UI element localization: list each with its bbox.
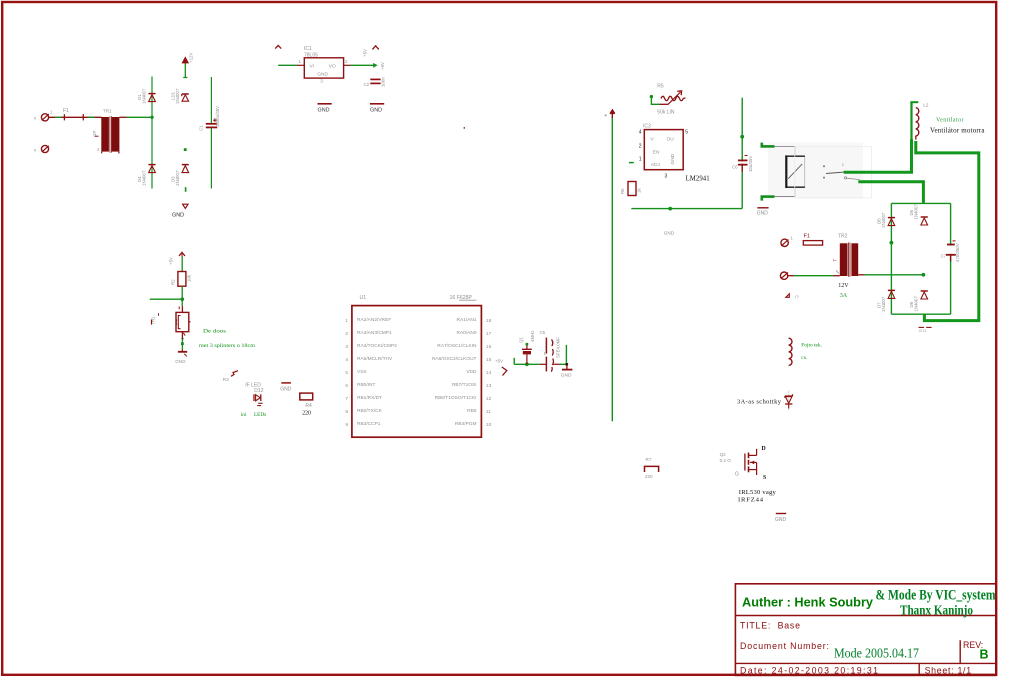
ground GND under IC1 — [318, 104, 332, 114]
+12V supply arrow — [182, 53, 193, 64]
svg-text:TITLE: Base: TITLE: Base — [740, 621, 800, 631]
svg-text:R?: R? — [646, 457, 652, 462]
svg-text:B: B — [980, 648, 989, 662]
transistor Q2 mosfet — [735, 446, 766, 481]
diode D1 — [137, 88, 156, 104]
svg-text:2: 2 — [345, 59, 348, 64]
+5V arrow at regulator output — [363, 46, 386, 70]
connector X1 — [34, 110, 53, 121]
net label gnd bridge — [919, 327, 932, 332]
node junction crystal — [525, 362, 529, 366]
wire regulator output — [344, 63, 378, 68]
label 16F628 — [450, 295, 477, 301]
svg-text:RA7/OSC1/CLKIN: RA7/OSC1/CLKIN — [437, 343, 477, 349]
svg-text:TR2: TR2 — [838, 233, 848, 239]
+5V supply arrow sensor — [169, 252, 186, 265]
svg-text:U1: U1 — [360, 295, 367, 301]
wire to R2 — [181, 257, 183, 272]
svg-text:RB6/T1OSO/T1CKI: RB6/T1OSO/T1CKI — [435, 395, 477, 401]
svg-text:met 3 splinters o 18cm: met 3 splinters o 18cm — [199, 343, 255, 349]
svg-text:1N4007: 1N4007 — [881, 212, 886, 228]
regulator IC1 78L05 — [304, 46, 344, 84]
inductor L1 choke — [789, 338, 792, 365]
resistor R6 — [620, 182, 642, 196]
svg-text:5: 5 — [345, 370, 348, 376]
wire X1 to fuse to TR1 — [49, 116, 102, 118]
svg-text:LEDs: LEDs — [254, 412, 266, 418]
wire relay no to bridge top — [858, 182, 923, 204]
left pin names — [357, 317, 397, 427]
svg-text:Q2: Q2 — [720, 452, 727, 457]
svg-text:VDD: VDD — [466, 369, 477, 375]
svg-text:RB7/T1OSI: RB7/T1OSI — [452, 382, 477, 388]
svg-text:IRL530 vagy: IRL530 vagy — [739, 489, 777, 496]
svg-text:RA6/OSC2/CLKOUT: RA6/OSC2/CLKOUT — [432, 356, 477, 362]
potentiometer R5 — [650, 83, 686, 115]
svg-text:+5V: +5V — [169, 257, 174, 265]
motor M1 coil — [916, 102, 929, 139]
wire osc left — [514, 358, 540, 365]
svg-text:0.2 O: 0.2 O — [720, 458, 732, 463]
svg-text:IC1: IC1 — [304, 46, 312, 52]
capacitor C6 — [732, 156, 753, 173]
svg-text:RA5/MCLR/THV: RA5/MCLR/THV — [357, 356, 393, 362]
thermistor TH1 — [151, 306, 191, 338]
relay contact lever — [795, 146, 872, 197]
svg-text:T: T — [833, 259, 838, 262]
svg-text:2: 2 — [345, 331, 348, 337]
svg-text:Date: 24-02-2003 20:19:31: Date: 24-02-2003 20:19:31 — [740, 666, 878, 676]
svg-text:D7: D7 — [876, 302, 881, 308]
svg-text:VO: VO — [329, 64, 336, 70]
wire R2 to node — [181, 286, 183, 306]
wire diode line 1 — [151, 77, 153, 189]
fuse F2 — [803, 234, 822, 245]
wire bridge frame — [890, 203, 951, 314]
diode D8 — [909, 291, 928, 312]
svg-text:ADJ: ADJ — [651, 162, 661, 168]
svg-text:1: 1 — [345, 318, 348, 324]
svg-text:3A-as schottky: 3A-as schottky — [737, 399, 782, 406]
ground GND led — [280, 383, 292, 392]
svg-text:SFE4.0MF: SFE4.0MF — [556, 337, 561, 358]
svg-text:.: . — [774, 241, 775, 246]
svg-text:cs.: cs. — [801, 355, 807, 361]
svg-text:1N4007: 1N4007 — [175, 88, 180, 104]
svg-text:RA1/AN1: RA1/AN1 — [457, 317, 477, 323]
svg-text:D8: D8 — [909, 301, 914, 307]
right pin names — [432, 317, 477, 427]
ground GND mosfet — [775, 514, 787, 523]
relay K1 coil — [774, 146, 805, 196]
svg-text:+5V: +5V — [495, 359, 503, 364]
svg-text:F1: F1 — [804, 234, 811, 240]
svg-text:VI: VI — [310, 64, 315, 70]
svg-text:3: 3 — [665, 174, 668, 180]
diode D5 — [876, 212, 895, 228]
svg-text:15: 15 — [486, 357, 492, 363]
svg-text:RA0/AN0: RA0/AN0 — [457, 330, 477, 336]
left pin numbers — [345, 318, 348, 428]
wire regulator input — [278, 64, 304, 66]
svg-text:LM2941: LM2941 — [686, 176, 710, 183]
svg-text:D5: D5 — [876, 218, 881, 224]
svg-text:GND: GND — [775, 517, 787, 523]
wire X4 to TR2 — [788, 275, 840, 277]
svg-text:GND: GND — [175, 359, 186, 364]
wire relay coil stub top — [761, 143, 775, 148]
wire +12V stub — [183, 64, 187, 78]
svg-text:14: 14 — [486, 370, 492, 376]
diode D6 — [909, 204, 928, 225]
svg-text:220: 220 — [645, 474, 653, 479]
svg-text:9: 9 — [345, 422, 348, 428]
svg-text:18: 18 — [486, 318, 492, 324]
svg-text:Sheet: 1/1: Sheet: 1/1 — [925, 666, 972, 676]
ground GND relay — [757, 208, 769, 217]
svg-text:+5V: +5V — [380, 62, 385, 70]
svg-text:OU: OU — [667, 136, 675, 142]
svg-text:D12: D12 — [254, 388, 263, 394]
svg-text:R2: R2 — [171, 279, 176, 285]
svg-text:12: 12 — [486, 396, 492, 402]
svg-text:7: 7 — [345, 396, 348, 402]
svg-text:D6: D6 — [909, 209, 914, 215]
svg-text:C7: C7 — [941, 254, 947, 259]
LED D12 — [254, 394, 263, 405]
svg-text:& Mode By VIC_system: & Mode By VIC_system — [876, 588, 996, 604]
svg-text:ini: ini — [241, 412, 247, 418]
svg-text:5: 5 — [685, 130, 688, 136]
svg-text:50k LIN: 50k LIN — [657, 109, 675, 115]
stray dot — [464, 127, 465, 128]
note irl530 — [738, 489, 777, 504]
resistor R4 — [300, 393, 313, 416]
svg-text:EN: EN — [653, 149, 660, 155]
svg-text:C5: C5 — [540, 330, 546, 335]
wire relay common to motor — [844, 139, 912, 172]
relay K1 background — [768, 143, 863, 199]
zener diode D2 — [171, 88, 189, 104]
svg-text:IRFZ44: IRFZ44 — [738, 497, 764, 504]
svg-text:RB0/INT: RB0/INT — [357, 382, 375, 388]
svg-text:GND: GND — [318, 107, 330, 113]
mark L net — [786, 294, 799, 300]
svg-text:Q1: Q1 — [518, 337, 523, 343]
diode D4 — [137, 165, 156, 186]
wire right riser — [740, 98, 744, 209]
note int led — [241, 412, 266, 418]
note choke green — [801, 343, 822, 361]
svg-text:Document Number:: Document Number: — [740, 641, 829, 651]
capacitor C2 — [364, 77, 386, 87]
svg-text:C1: C1 — [199, 125, 204, 131]
svg-text:G D: G D — [919, 328, 926, 333]
resonator ceramic — [540, 330, 561, 372]
svg-text:F1: F1 — [63, 108, 69, 114]
svg-text:78L05: 78L05 — [304, 52, 318, 58]
wire capacitor line — [210, 77, 212, 189]
resistor R2 — [171, 272, 192, 287]
+12V arrow tall rail — [605, 109, 615, 118]
svg-text:L2: L2 — [923, 102, 929, 107]
svg-text:RB5: RB5 — [467, 408, 477, 414]
capacitor C7 — [941, 241, 960, 262]
svg-text:1: 1 — [639, 156, 642, 162]
svg-text:1N4007: 1N4007 — [175, 170, 180, 186]
diode D9 schottky — [785, 391, 793, 411]
svg-text:4: 4 — [345, 357, 348, 363]
svg-text:.: . — [774, 274, 775, 279]
svg-text:1N4007: 1N4007 — [142, 88, 147, 104]
wire TR1 to bridge node — [119, 116, 152, 118]
svg-text:R4: R4 — [305, 403, 312, 409]
right pin numbers — [486, 318, 492, 428]
wire tall rail — [611, 118, 613, 422]
svg-text:2: 2 — [639, 143, 642, 149]
svg-text:1N4007: 1N4007 — [914, 296, 919, 312]
node junction sensor — [181, 297, 185, 301]
svg-text:Auther : Henk Soubry: Auther : Henk Soubry — [742, 596, 873, 610]
svg-text:3: 3 — [345, 344, 348, 350]
svg-text:GND: GND — [280, 386, 292, 392]
svg-text:R5: R5 — [657, 83, 664, 89]
connector X2 — [34, 145, 49, 152]
fuse F1 — [63, 108, 83, 120]
diode D7 — [876, 290, 895, 312]
svg-text:100n: 100n — [381, 77, 386, 87]
svg-text:10k: 10k — [187, 274, 192, 282]
title block frame — [735, 584, 996, 676]
+12V arrow at regulator input — [275, 45, 281, 48]
node junction D-line — [150, 116, 153, 119]
svg-text:D1: D1 — [137, 94, 142, 100]
ground GND arrow — [172, 204, 188, 218]
wire motor to bridge — [916, 141, 979, 321]
svg-text:4: 4 — [639, 130, 642, 136]
svg-text:11: 11 — [486, 409, 491, 415]
svg-text:!?: !? — [795, 294, 799, 299]
svg-text:GND: GND — [370, 107, 382, 113]
node dot mid — [184, 148, 187, 151]
svg-text:C6: C6 — [732, 164, 738, 169]
wire tap to ADC — [150, 298, 183, 300]
svg-text:+5V: +5V — [363, 49, 368, 57]
zener diode D3 — [171, 165, 189, 186]
wire bottom rail — [631, 207, 742, 211]
ground GND under C2 — [370, 104, 384, 114]
svg-text:LD1: LD1 — [171, 91, 176, 100]
svg-text:1P: 1P — [92, 131, 97, 136]
svg-text:R6: R6 — [620, 188, 625, 194]
svg-text:TR1: TR1 — [103, 109, 112, 114]
svg-text:1: 1 — [299, 59, 302, 64]
transistor Q2 labels — [720, 452, 732, 463]
wire relay coil stub bottom — [761, 195, 775, 200]
svg-text:1N4007: 1N4007 — [142, 170, 147, 186]
connector X4 — [774, 272, 788, 279]
svg-text:16: 16 — [486, 344, 492, 350]
wire adj stub — [629, 162, 634, 164]
svg-text:GND: GND — [664, 231, 675, 236]
svg-text:12V: 12V — [838, 283, 849, 289]
svg-text:RA4/TOCKI/CMP2: RA4/TOCKI/CMP2 — [357, 343, 397, 349]
svg-text:D4: D4 — [137, 176, 142, 182]
svg-text:C2: C2 — [364, 82, 370, 87]
svg-text:RB4/PGM: RB4/PGM — [455, 421, 477, 427]
svg-text:1N4007: 1N4007 — [914, 204, 919, 220]
svg-text:Ventilátor motorra: Ventilátor motorra — [930, 127, 985, 135]
svg-text:Ventilator: Ventilator — [936, 118, 964, 124]
svg-text:3: 3 — [320, 79, 323, 84]
svg-text:+12V: +12V — [189, 53, 194, 63]
resistor R3 diagonal mark — [223, 371, 238, 382]
svg-text:R3: R3 — [223, 377, 229, 382]
svg-text:GND: GND — [757, 211, 769, 217]
svg-text:220: 220 — [302, 411, 311, 417]
svg-text:Fojto tek.: Fojto tek. — [801, 343, 822, 349]
svg-text:VSS: VSS — [357, 369, 367, 375]
ground GND osc — [561, 364, 573, 378]
wire motor left lead — [910, 102, 918, 140]
svg-text:4MHz: 4MHz — [530, 331, 535, 342]
svg-text:GND: GND — [317, 71, 328, 77]
connector X3 — [774, 236, 794, 247]
transformer TR2 — [833, 233, 859, 299]
svg-text:1000u/35V: 1000u/35V — [215, 106, 220, 127]
svg-text:RA3/AN3/CMP1: RA3/AN3/CMP1 — [357, 330, 392, 336]
svg-text:10: 10 — [486, 422, 492, 428]
svg-text:GND: GND — [670, 153, 676, 164]
svg-text:RB3/CCP1: RB3/CCP1 — [357, 421, 381, 427]
wire osc right — [560, 345, 568, 366]
svg-text:10u/35V: 10u/35V — [748, 156, 753, 172]
svg-text:RA2/AN2/VREF: RA2/AN2/VREF — [357, 317, 391, 323]
op-amp U1 PIC16F628 box — [352, 306, 482, 438]
svg-text:1N4007: 1N4007 — [881, 296, 886, 312]
transformer TR1 — [92, 109, 119, 154]
svg-text:D3: D3 — [171, 176, 176, 182]
svg-text:1k: 1k — [637, 188, 642, 193]
regulator IC3 LM2941 — [639, 123, 688, 179]
svg-text:13: 13 — [486, 383, 492, 389]
capacitor C1 — [199, 106, 220, 131]
svg-text:GND: GND — [172, 213, 184, 219]
resistor R7 gate — [645, 457, 659, 479]
svg-text:Thanx Kaninjo: Thanx Kaninjo — [900, 604, 973, 619]
net label +5V near VSS — [495, 359, 507, 376]
svg-text:S: S — [763, 475, 766, 481]
svg-text:4700/50V: 4700/50V — [955, 243, 960, 262]
wire TR2 to bridge — [858, 273, 925, 277]
svg-text:RB2/TX/CK: RB2/TX/CK — [357, 408, 383, 414]
wire to gnd with node — [181, 338, 184, 349]
svg-text:G: G — [735, 472, 739, 478]
ground GND sensor — [175, 349, 187, 364]
svg-text:3A: 3A — [840, 293, 848, 299]
svg-text:D: D — [762, 446, 766, 452]
svg-text:Mode 2005.04.17: Mode 2005.04.17 — [834, 646, 919, 661]
svg-text:GND: GND — [561, 373, 572, 379]
svg-text:De doos: De doos — [203, 328, 226, 334]
svg-text:6: 6 — [345, 383, 348, 389]
crystal Q1 — [518, 331, 535, 365]
svg-text:IC3: IC3 — [643, 123, 651, 129]
svg-text:8: 8 — [345, 409, 348, 415]
svg-text:RB1/RX/DT: RB1/RX/DT — [357, 395, 382, 401]
wire gnd stub — [185, 187, 187, 192]
svg-text:17: 17 — [486, 331, 492, 337]
